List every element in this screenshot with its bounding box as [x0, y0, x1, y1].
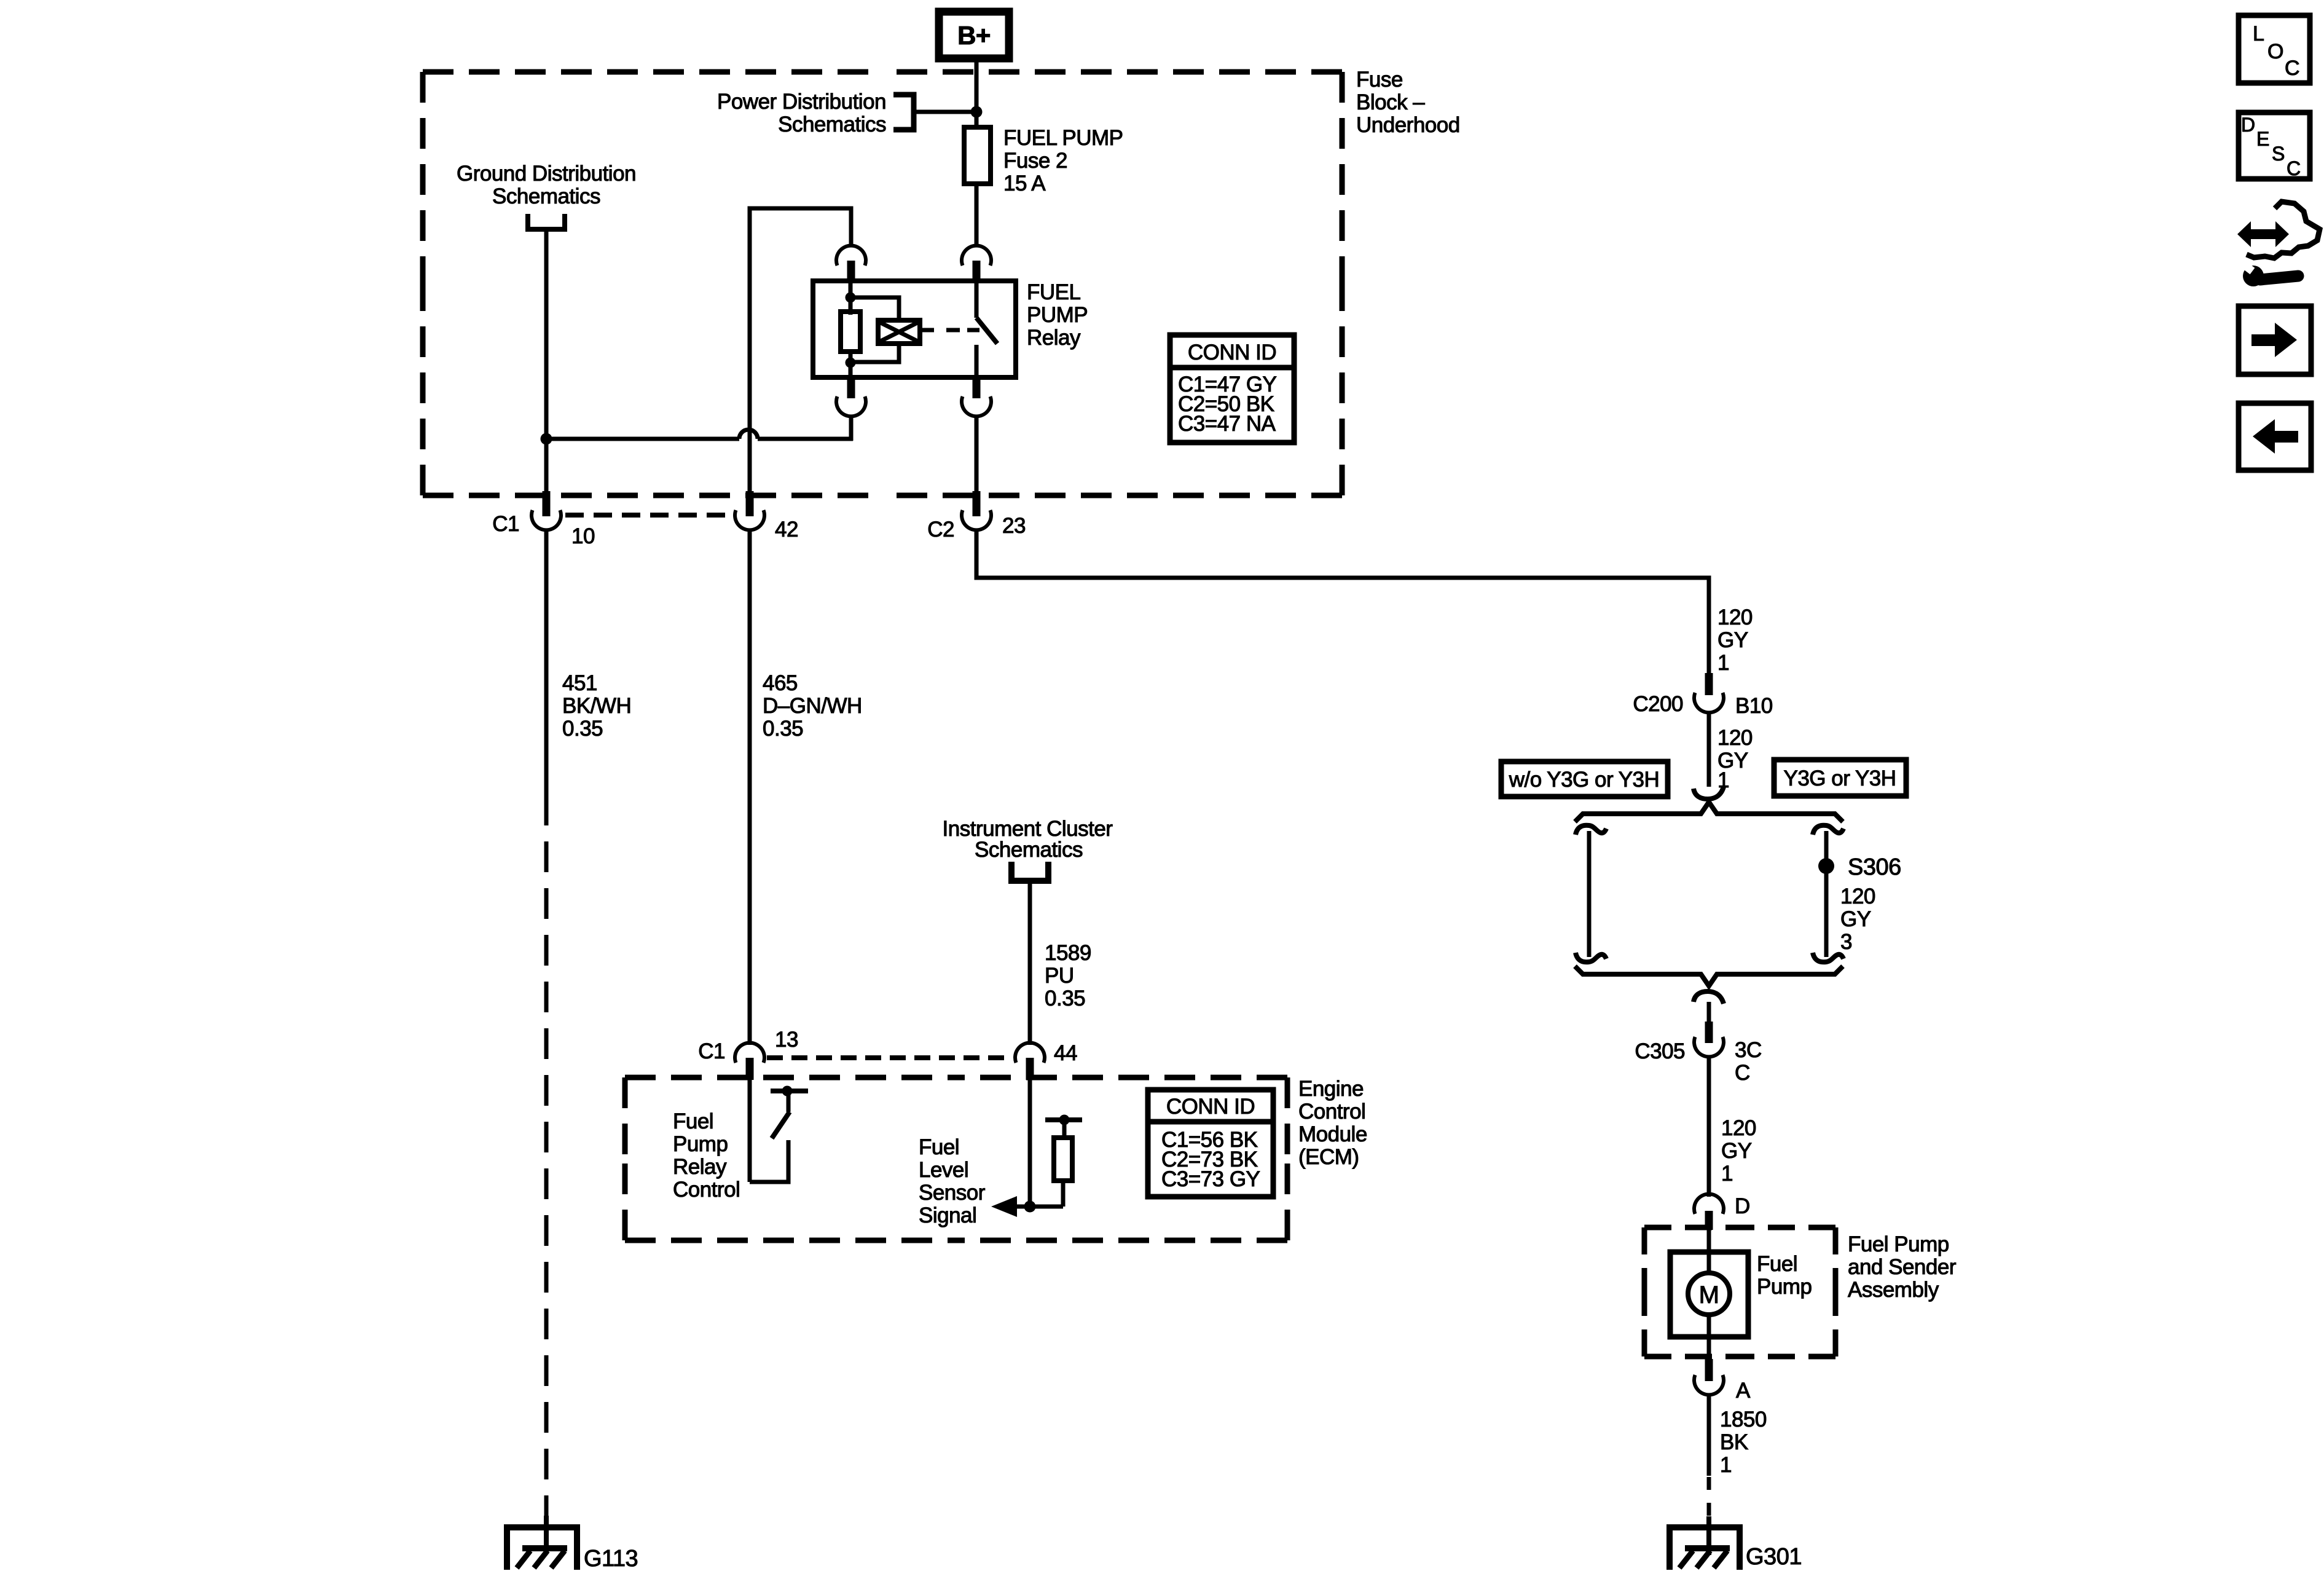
B+ battery feed symbol [939, 12, 1009, 58]
svg-text:10: 10 [571, 524, 595, 548]
svg-text:C305: C305 [1635, 1039, 1685, 1063]
svg-text:C3=73 GY: C3=73 GY [1161, 1167, 1260, 1191]
svg-text:15 A: 15 A [1003, 171, 1046, 195]
wire: ground distribution drop [544, 232, 549, 439]
svg-text:C: C [1735, 1061, 1750, 1085]
wire: B+ to fuse [975, 58, 979, 127]
svg-text:Relay: Relay [1027, 326, 1081, 350]
svg-text:120: 120 [1717, 605, 1753, 629]
fuel pump and sender assembly dashed box [1644, 1227, 1835, 1357]
svg-text:Control: Control [673, 1178, 740, 1202]
svg-text:and Sender: and Sender [1848, 1255, 1957, 1279]
svg-text:C200: C200 [1633, 692, 1683, 716]
connector A [1705, 1359, 1713, 1381]
fuel pump relay control driver switch [748, 1080, 752, 1182]
svg-text:Fuse: Fuse [1356, 68, 1403, 92]
svg-text:Schematics: Schematics [492, 184, 600, 208]
wire 1589 PU 0.35 [1028, 881, 1032, 1045]
relay switch blade [976, 318, 997, 344]
svg-text:S: S [2272, 143, 2285, 165]
wire 465 D-GN/WH 0.35 [748, 529, 752, 1045]
icon: next arrow box [2239, 306, 2311, 374]
svg-text:Y3G or Y3H: Y3G or Y3H [1783, 766, 1896, 790]
fuse block - underhood dashed box [423, 72, 1342, 495]
svg-text:(ECM): (ECM) [1298, 1145, 1359, 1169]
option tag: w/o Y3G or Y3H [1501, 762, 1668, 797]
svg-text:E: E [2256, 128, 2269, 150]
svg-text:Pump: Pump [673, 1132, 728, 1156]
relay coil resistor [841, 312, 860, 352]
svg-text:Sensor: Sensor [919, 1181, 986, 1205]
connector C305 pin 3C/C [1705, 1022, 1713, 1043]
connector below relay coil [847, 378, 855, 398]
connector C1 pin 13 [735, 1043, 764, 1063]
connector body dashed link 13-44 [767, 1055, 1013, 1060]
svg-text:Underhood: Underhood [1356, 113, 1460, 137]
icon: LOC box [2239, 15, 2310, 83]
svg-text:1: 1 [1721, 1162, 1733, 1186]
svg-text:44: 44 [1054, 1041, 1077, 1065]
svg-text:451: 451 [562, 671, 597, 695]
svg-text:Relay: Relay [673, 1155, 727, 1179]
wire: coil return horizontal with hop [546, 437, 739, 441]
svg-text:GY: GY [1721, 1139, 1752, 1163]
wire 451 BK/WH 0.35 [544, 529, 549, 795]
svg-text:C1: C1 [492, 512, 519, 536]
relay box FUEL PUMP Relay [813, 281, 1016, 377]
wire: coil return drop [849, 415, 854, 441]
svg-text:S306: S306 [1848, 854, 1901, 880]
svg-text:Level: Level [919, 1158, 968, 1182]
svg-text:Power Distribution: Power Distribution [717, 90, 886, 114]
wrench [2243, 266, 2264, 286]
connector C200 pin B10 [1705, 673, 1713, 695]
relay switch fixed pin [975, 281, 979, 318]
svg-text:CONN ID: CONN ID [1166, 1095, 1255, 1119]
option tag: Y3G or Y3H [1774, 760, 1906, 796]
svg-text:Fuel Pump: Fuel Pump [1848, 1232, 1949, 1256]
svg-text:A: A [1736, 1379, 1751, 1403]
icon: harness repair (arrows and wrench) [2237, 221, 2289, 247]
svg-text:L: L [2253, 22, 2264, 45]
svg-text:FUEL: FUEL [1027, 280, 1081, 304]
svg-text:Engine: Engine [1298, 1077, 1364, 1101]
svg-text:B10: B10 [1735, 694, 1773, 718]
junction node on B+ feed [971, 106, 983, 118]
svg-text:42: 42 [775, 518, 798, 541]
svg-text:465: 465 [763, 671, 798, 695]
ground G113 [544, 1516, 549, 1554]
junction node on ground drop [541, 433, 552, 445]
svg-text:M: M [1699, 1282, 1719, 1309]
wire: fuse to relay switch connector [975, 184, 979, 246]
branch Y3G hook bottom [1813, 953, 1843, 962]
svg-text:1: 1 [1720, 1453, 1732, 1477]
branch wire Y3G [1824, 831, 1829, 957]
svg-text:D–GN/WH: D–GN/WH [763, 694, 862, 718]
harness split brace top [1575, 802, 1843, 822]
junction node coil top [846, 293, 856, 303]
svg-text:Signal: Signal [919, 1203, 976, 1227]
connector D (pump assembly) [1694, 1194, 1724, 1214]
signal arrow [991, 1196, 1017, 1217]
svg-text:PUMP: PUMP [1027, 303, 1088, 327]
split pigtail top [1694, 787, 1724, 799]
relay switch moving pin [975, 345, 979, 377]
svg-text:GY: GY [1840, 907, 1871, 931]
wire: C2/23 to C200 [976, 529, 1709, 673]
svg-text:Fuel: Fuel [1757, 1252, 1797, 1276]
connector pin 44 [1015, 1043, 1045, 1063]
relay solenoid element [878, 320, 920, 344]
svg-text:1: 1 [1717, 651, 1729, 675]
icon: previous arrow box [2239, 403, 2311, 470]
icon: DESC box [2239, 112, 2310, 179]
svg-text:O: O [2267, 40, 2283, 63]
svg-text:0.35: 0.35 [562, 717, 603, 741]
svg-text:D: D [2241, 114, 2255, 136]
connector C1 pin 10 [543, 491, 551, 516]
svg-text:C3=47 NA: C3=47 NA [1178, 412, 1276, 436]
svg-text:23: 23 [1002, 514, 1026, 538]
connector below relay switch [973, 378, 981, 398]
svg-text:Ground Distribution: Ground Distribution [457, 162, 636, 186]
actuator dashed link [920, 328, 934, 333]
wire 1850 BK 1 [1707, 1394, 1711, 1476]
fuse FUEL PUMP Fuse 2 15A [964, 127, 991, 184]
svg-text:1589: 1589 [1045, 941, 1091, 965]
svg-text:FUEL PUMP: FUEL PUMP [1003, 126, 1123, 150]
svg-text:Pump: Pump [1757, 1275, 1812, 1299]
svg-text:Control: Control [1298, 1100, 1365, 1124]
svg-text:Block –: Block – [1356, 90, 1425, 114]
svg-text:0.35: 0.35 [1045, 986, 1085, 1010]
sense resistor [1054, 1138, 1072, 1181]
svg-text:CONN ID: CONN ID [1188, 341, 1276, 364]
connector body dashed link C1-42 [565, 513, 732, 518]
wire: coil parallel loop [850, 297, 899, 362]
svg-text:BK/WH: BK/WH [562, 694, 631, 718]
connector cap above relay coil [836, 246, 866, 266]
fuel pump motor box [1670, 1252, 1748, 1337]
svg-text:w/o Y3G or Y3H: w/o Y3G or Y3H [1509, 768, 1660, 792]
svg-text:3C: 3C [1735, 1038, 1762, 1062]
svg-text:B+: B+ [957, 21, 991, 50]
svg-text:3: 3 [1840, 930, 1852, 954]
svg-text:120: 120 [1717, 726, 1753, 750]
ECM dashed box [625, 1077, 1287, 1240]
svg-text:Assembly: Assembly [1848, 1278, 1939, 1302]
svg-text:Module: Module [1298, 1122, 1367, 1146]
svg-text:G301: G301 [1746, 1544, 1802, 1570]
svg-text:D: D [1735, 1194, 1750, 1218]
harness split brace bottom [1575, 966, 1843, 986]
wire: bracket to B+ feed [914, 110, 976, 114]
svg-text:Fuse 2: Fuse 2 [1003, 149, 1067, 173]
splice S306 [1818, 858, 1834, 874]
svg-text:Schematics: Schematics [778, 112, 886, 136]
branch wire w/o Y3G [1587, 831, 1592, 957]
svg-text:BK: BK [1720, 1430, 1748, 1454]
svg-text:C1: C1 [698, 1039, 725, 1063]
connector cap above relay switch [962, 246, 991, 266]
wire: switch output drop [975, 415, 979, 495]
branch Y3G hook top [1813, 825, 1843, 835]
relay coil pin [849, 281, 853, 315]
wire: relay coil feed loop [750, 208, 851, 495]
svg-text:C: C [2285, 57, 2299, 80]
ground G301 [1706, 1516, 1711, 1555]
svg-text:PU: PU [1045, 964, 1074, 988]
svg-text:13: 13 [775, 1028, 798, 1052]
connector C2 pin 23 [973, 491, 981, 516]
svg-text:Schematics: Schematics [975, 838, 1083, 862]
svg-text:120: 120 [1721, 1116, 1756, 1140]
split pigtail bottom [1694, 991, 1724, 1004]
junction node coil bottom [846, 358, 856, 368]
connector pin 42 [746, 491, 754, 516]
svg-text:Fuel: Fuel [673, 1109, 713, 1133]
motor M [1688, 1273, 1730, 1315]
svg-text:C: C [2287, 157, 2301, 179]
label bracket: Power Distribution Schematics [893, 95, 914, 130]
svg-text:G113: G113 [584, 1546, 638, 1572]
svg-text:C2: C2 [927, 518, 954, 541]
svg-text:Fuel: Fuel [919, 1135, 959, 1159]
branch w/o Y3G hook bottom [1576, 953, 1606, 962]
svg-text:120: 120 [1840, 884, 1875, 908]
branch w/o Y3G hook top [1576, 825, 1606, 835]
CONN ID table (ECM) [1148, 1090, 1273, 1197]
fuel level sense network [1028, 1080, 1032, 1207]
CONN ID table (fuse block) [1170, 335, 1294, 443]
svg-text:GY: GY [1717, 628, 1748, 652]
svg-text:1850: 1850 [1720, 1408, 1767, 1431]
junction node sensor signal [1024, 1201, 1036, 1213]
svg-text:0.35: 0.35 [763, 717, 803, 741]
